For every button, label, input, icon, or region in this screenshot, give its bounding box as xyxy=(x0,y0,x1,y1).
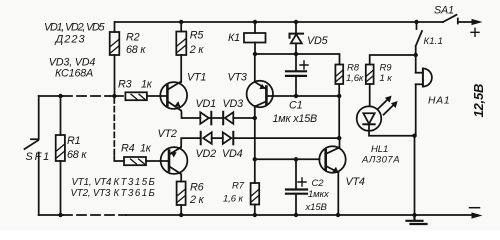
wire R2 bottom to node xyxy=(114,55,116,96)
svg-text:К1: К1 xyxy=(228,32,240,44)
wire VT3 collector down xyxy=(254,107,256,184)
transistor VT2 xyxy=(161,147,188,174)
svg-text:С1: С1 xyxy=(289,100,303,112)
diode VD2 xyxy=(201,132,223,145)
svg-text:1мк х15В: 1мк х15В xyxy=(273,113,318,125)
svg-text:VT2, VT3: VT2, VT3 xyxy=(71,188,111,199)
svg-text:VD2: VD2 xyxy=(196,148,217,160)
node dot rail R7 xyxy=(253,213,257,217)
svg-text:68 к: 68 к xyxy=(126,44,146,56)
wire HA1 to ground rail xyxy=(414,136,416,215)
wire R7 to rail xyxy=(254,205,256,216)
wire into R3 xyxy=(110,95,123,97)
svg-text:АЛ307А: АЛ307А xyxy=(361,155,400,166)
svg-text:R6: R6 xyxy=(190,182,204,194)
svg-text:68 к: 68 к xyxy=(67,149,87,161)
resistor R8 xyxy=(335,65,343,85)
wire top rail right segment to arrow xyxy=(459,21,477,23)
wire left horizontal solid xyxy=(39,95,63,97)
svg-text:R7: R7 xyxy=(232,181,245,192)
switch SF1 xyxy=(25,139,39,149)
node dot K1.1 top xyxy=(414,20,418,24)
wire bottom rail left xyxy=(39,214,63,216)
wire VT3 emitter from K1 node xyxy=(254,54,256,82)
wire SF1 to bottom rail xyxy=(38,153,40,216)
svg-text:R9: R9 xyxy=(380,63,393,74)
svg-text:К1.1: К1.1 xyxy=(424,36,444,47)
wire R9 top xyxy=(370,55,416,65)
svg-text:КТ315Б: КТ315Б xyxy=(114,177,157,188)
svg-text:VD5: VD5 xyxy=(307,35,329,47)
node dot rail R1 xyxy=(58,213,62,217)
resistor R3 xyxy=(125,92,146,100)
node dot rail C2 xyxy=(294,213,298,217)
node dot R5 top xyxy=(179,20,183,24)
wire K1 bottom to VD5 xyxy=(255,53,296,55)
node plus sign C1 xyxy=(300,61,308,69)
node dot C1 bottom xyxy=(294,94,298,98)
node dot rail ground xyxy=(412,213,416,217)
transistor VT3 xyxy=(247,81,273,107)
resistor R7 xyxy=(251,183,260,205)
wire R6 to rail xyxy=(180,205,182,215)
svg-text:VT3: VT3 xyxy=(228,72,247,84)
node junction R1 top xyxy=(58,94,62,98)
wire R4 to VT2 base xyxy=(146,160,168,162)
svg-text:х15В: х15В xyxy=(305,202,328,213)
wire left horizontal dashed xyxy=(63,95,110,97)
svg-text:VT4: VT4 xyxy=(346,176,365,188)
svg-text:С2: С2 xyxy=(312,178,325,189)
node minus arrow bottom right xyxy=(472,212,483,218)
svg-text:12,5В: 12,5В xyxy=(471,84,486,118)
wire R8 node down to VT4 collector xyxy=(338,96,340,138)
resistor R4 xyxy=(124,157,146,165)
zener VD5 xyxy=(290,22,304,54)
svg-text:SA1: SA1 xyxy=(434,5,454,17)
node plus arrow top right xyxy=(472,19,483,25)
node plus sign C2 xyxy=(298,178,306,186)
svg-text:R3: R3 xyxy=(118,79,132,91)
wire diode row2 to VT4 collector xyxy=(339,138,341,148)
sounder HA1 xyxy=(416,55,432,136)
wire left rail down to SF1 xyxy=(38,96,40,139)
wire bottom rail dashed xyxy=(63,214,126,216)
wire VT1 collector up xyxy=(180,55,182,82)
node dot base row left xyxy=(253,157,257,161)
svg-text:Д223: Д223 xyxy=(54,34,86,46)
wire R3 to VT1 base xyxy=(147,95,167,97)
svg-text:VD4: VD4 xyxy=(222,148,243,160)
node dot HA1 branch LED xyxy=(412,134,416,138)
node dot VD5 bottom xyxy=(294,52,298,56)
svg-text:VT2: VT2 xyxy=(158,128,177,140)
wire VD5 node to R8 xyxy=(296,54,340,65)
resistor R5 xyxy=(176,32,186,56)
svg-text:R5: R5 xyxy=(190,30,205,42)
wire VT4 emitter to rail xyxy=(337,173,339,216)
wire LED bottom to HA1 branch xyxy=(369,131,415,136)
svg-text:1,6к: 1,6к xyxy=(346,73,364,84)
svg-text:VD1, VD2, VD5: VD1, VD2, VD5 xyxy=(44,22,106,34)
svg-text:VT1, VT4: VT1, VT4 xyxy=(72,177,112,188)
wire R9 bottom to LED xyxy=(369,84,371,106)
svg-text:R8: R8 xyxy=(347,63,360,74)
svg-text:2 к: 2 к xyxy=(189,44,205,56)
svg-text:2 к: 2 к xyxy=(189,194,205,206)
svg-text:1,6 к: 1,6 к xyxy=(223,194,243,205)
resistor R2 xyxy=(110,32,120,55)
wire VT2 emitter up to diode row2 xyxy=(181,138,201,147)
diode VD4 xyxy=(223,132,340,145)
svg-text:R4: R4 xyxy=(121,143,135,155)
svg-text:VD1: VD1 xyxy=(196,98,217,110)
LED HL1 xyxy=(357,106,382,131)
svg-text:VD3: VD3 xyxy=(223,98,244,110)
node dot K1 bottom xyxy=(253,52,257,56)
wire R1 to bottom rail xyxy=(60,161,62,215)
wire R8 bottom xyxy=(338,84,340,96)
switch SA1 xyxy=(443,15,458,24)
node minus sign bottom right xyxy=(470,207,480,209)
svg-text:КТ361Б: КТ361Б xyxy=(114,188,157,199)
svg-text:1к: 1к xyxy=(140,143,152,155)
node dot rail VT4 xyxy=(336,213,340,217)
svg-text:НА1: НА1 xyxy=(428,96,450,107)
wire VT2 collector to R6 xyxy=(179,174,182,182)
svg-text:КС168А: КС168А xyxy=(55,68,93,80)
svg-text:R2: R2 xyxy=(126,31,140,43)
transistor VT4 xyxy=(319,146,345,173)
transistor VT1 xyxy=(160,82,187,111)
diode VD3 xyxy=(223,112,255,125)
LED arrows xyxy=(378,96,398,115)
wire R1 branch xyxy=(60,96,62,135)
wire R2 branch from rail xyxy=(114,22,116,32)
wire top rail xyxy=(115,21,443,23)
node dot HA1 top xyxy=(414,53,418,57)
svg-text:VT1: VT1 xyxy=(187,72,206,84)
wire bottom rail main xyxy=(126,214,477,216)
node dot VD5 top xyxy=(294,20,298,24)
svg-text:1 к: 1 к xyxy=(380,73,393,84)
wire VT1 emitter to diode row1 xyxy=(181,111,200,119)
node dot rail R6 xyxy=(179,213,183,217)
node junction R2 bottom xyxy=(112,94,116,98)
node dot R8 bottom xyxy=(337,94,341,98)
diode VD1 xyxy=(200,112,223,125)
relay coil K1 xyxy=(244,22,266,54)
contact K1.1 xyxy=(416,22,422,55)
wire R5 top xyxy=(180,22,182,32)
resistor R1 xyxy=(56,135,65,161)
node plus sign top right xyxy=(471,28,479,36)
resistor R6 xyxy=(177,182,186,206)
wire VT3 base right xyxy=(268,95,340,97)
capacitor C2 xyxy=(286,159,307,215)
svg-text:1к: 1к xyxy=(141,79,153,91)
capacitor C1 xyxy=(286,54,306,96)
resistor R9 xyxy=(366,65,374,85)
wire VT4 base row xyxy=(255,158,320,160)
svg-text:HL1: HL1 xyxy=(371,144,388,155)
node dot VT4 collector xyxy=(337,136,341,140)
node dot base row C2 xyxy=(294,157,298,161)
svg-text:R1: R1 xyxy=(67,135,81,147)
svg-text:1мкх: 1мкх xyxy=(308,189,330,200)
node dot K1 top xyxy=(253,20,257,24)
node dot diode row1 right xyxy=(253,116,257,120)
wire node down to R4 corner xyxy=(113,98,115,157)
ground xyxy=(407,215,427,224)
